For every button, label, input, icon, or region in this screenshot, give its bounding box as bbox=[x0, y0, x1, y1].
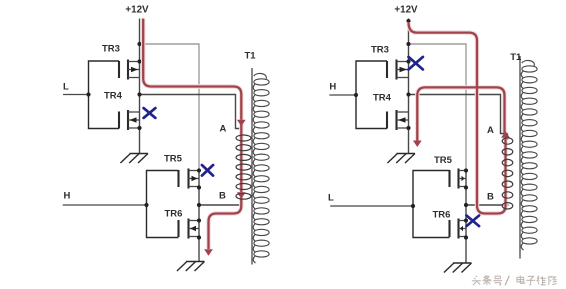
svg-text:TR5: TR5 bbox=[164, 153, 183, 164]
svg-text:+12V: +12V bbox=[394, 5, 418, 16]
svg-text:B: B bbox=[219, 191, 226, 202]
svg-text:TR4: TR4 bbox=[104, 90, 123, 101]
svg-text:A: A bbox=[487, 125, 494, 136]
svg-text:L: L bbox=[63, 82, 69, 93]
svg-text:L: L bbox=[328, 193, 334, 204]
svg-text:TR3: TR3 bbox=[102, 44, 120, 55]
svg-text:TR4: TR4 bbox=[373, 92, 392, 103]
svg-text:H: H bbox=[329, 82, 336, 93]
svg-text:B: B bbox=[487, 192, 494, 203]
svg-text:TR5: TR5 bbox=[434, 155, 453, 166]
svg-text:A: A bbox=[220, 124, 227, 135]
svg-text:T1: T1 bbox=[510, 52, 522, 63]
svg-text:TR6: TR6 bbox=[433, 210, 451, 221]
svg-text:TR6: TR6 bbox=[165, 208, 183, 219]
svg-text:+12V: +12V bbox=[125, 5, 149, 16]
svg-text:T1: T1 bbox=[245, 50, 257, 61]
svg-text:TR3: TR3 bbox=[371, 44, 389, 55]
svg-text:H: H bbox=[64, 190, 71, 201]
